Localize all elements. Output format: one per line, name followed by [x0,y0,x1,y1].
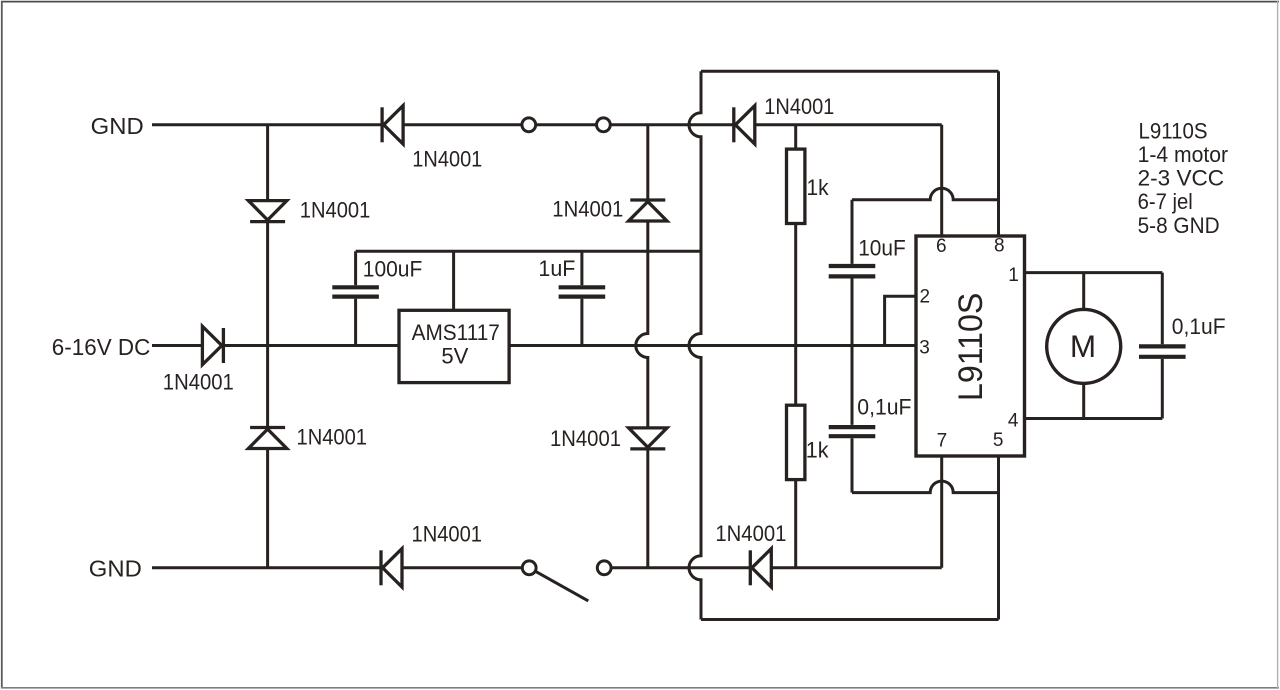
svg-text:1k: 1k [807,175,829,200]
svg-text:1N4001: 1N4001 [550,426,621,451]
svg-text:1N4001: 1N4001 [412,147,482,172]
svg-text:6-16V DC: 6-16V DC [52,334,151,360]
svg-text:2: 2 [920,287,931,308]
svg-text:1N4001: 1N4001 [715,521,786,546]
svg-text:GND: GND [89,556,142,582]
svg-text:1N4001: 1N4001 [163,370,234,395]
svg-text:AMS1117: AMS1117 [412,320,500,345]
svg-text:5-8 GND: 5-8 GND [1138,213,1220,238]
svg-text:100uF: 100uF [363,257,423,282]
svg-text:6-7 jel: 6-7 jel [1138,189,1193,214]
svg-text:5V: 5V [441,344,468,369]
svg-text:3: 3 [919,338,930,359]
svg-text:1-4 motor: 1-4 motor [1138,142,1229,167]
svg-text:2-3 VCC: 2-3 VCC [1138,166,1225,191]
svg-text:1k: 1k [806,438,829,463]
svg-text:7: 7 [937,431,948,452]
svg-text:L9110S: L9110S [1139,118,1208,143]
svg-text:6: 6 [936,236,947,257]
svg-text:1N4001: 1N4001 [764,94,834,119]
svg-text:1N4001: 1N4001 [300,197,371,222]
svg-text:0,1uF: 0,1uF [857,395,911,420]
svg-text:0,1uF: 0,1uF [1172,314,1226,339]
svg-text:10uF: 10uF [858,236,906,261]
svg-text:4: 4 [1008,411,1019,432]
svg-text:8: 8 [994,236,1005,257]
svg-text:M: M [1070,328,1096,364]
svg-text:1N4001: 1N4001 [297,425,368,450]
svg-text:L9110S: L9110S [952,293,990,401]
svg-text:1: 1 [1008,265,1019,286]
svg-text:5: 5 [993,430,1004,451]
svg-text:1N4001: 1N4001 [412,522,483,547]
svg-text:1N4001: 1N4001 [552,197,623,222]
svg-text:1uF: 1uF [538,256,575,281]
svg-text:GND: GND [91,113,144,139]
